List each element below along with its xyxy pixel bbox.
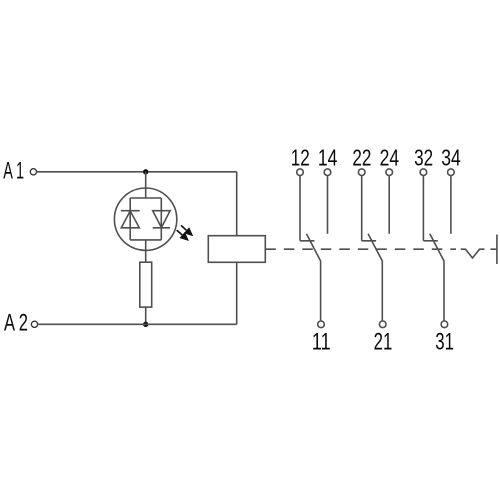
wire stub into rect top [145,188,147,198]
svg-text:14: 14 [318,145,338,171]
svg-text:22: 22 [352,145,371,171]
terminal circle A1 [30,169,36,175]
wire rect bottom to resistor [145,240,147,262]
junction dot A2 node [143,322,148,327]
svg-text:A 1: A 1 [3,157,24,184]
svg-text:11: 11 [312,329,331,356]
moving contact arm 31 [430,234,444,321]
LED indicator circle [114,188,176,250]
diode left (cathode up) [121,211,140,228]
terminal circle 14 [324,169,331,176]
wire coil branch lower [236,262,238,324]
terminal circle 12 [297,169,304,176]
moving contact arm 11 [306,234,320,321]
svg-text:12: 12 [291,145,310,171]
svg-text:31: 31 [435,329,454,356]
NC contact line 12 [300,176,314,241]
NO contact line 34 [450,176,452,234]
wire A1 horizontal [37,171,237,173]
terminal circle A2 [31,321,37,327]
svg-text:21: 21 [374,329,393,356]
terminal circle 31 [441,321,448,328]
terminal circle 21 [379,321,386,328]
wire coil branch upper [236,172,238,236]
terminal circle 32 [420,169,427,176]
junction dot A1 node [143,169,148,174]
NC contact line 22 [362,176,376,241]
mechanical linkage dashed line [265,248,456,250]
NO contact line 14 [327,176,329,234]
NC contact line 32 [423,176,437,241]
terminal circle 34 [448,169,455,176]
relay coil K1 [208,236,265,263]
contact 2 group [352,145,399,356]
contact 3 group [414,145,461,356]
terminal circle 22 [358,169,365,176]
wire resistor to A2 node [145,307,147,324]
wire A2 horizontal [38,323,237,325]
svg-text:24: 24 [380,145,400,171]
linkage end segment [491,248,497,250]
linkage detent chevron [461,249,485,258]
LED arrow 2 [177,230,189,241]
svg-text:A 2: A 2 [4,310,28,337]
terminal circle 11 [318,321,325,328]
LED arrow 1 [181,225,193,236]
svg-text:34: 34 [441,145,461,171]
diode bridge rectangle [130,198,161,240]
contact 1 group [291,145,338,356]
svg-text:32: 32 [414,145,433,171]
moving contact arm 21 [368,234,382,321]
NO contact line 24 [388,176,390,234]
linkage end stop bar [496,235,498,265]
wire junction to LED circle [145,172,147,189]
LED diode right (cathode down) [153,211,170,228]
terminal circle 24 [386,169,393,176]
resistor [140,262,152,307]
